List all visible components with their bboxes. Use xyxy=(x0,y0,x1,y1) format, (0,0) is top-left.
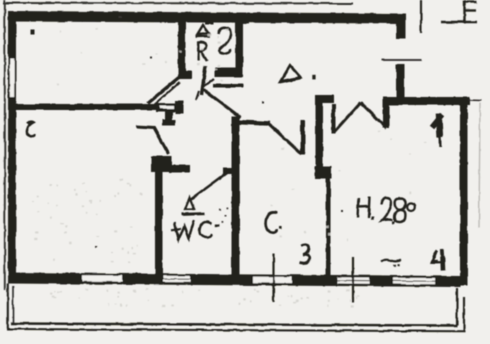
underline triangle R xyxy=(196,35,211,38)
room R right wall xyxy=(236,19,244,77)
label WC xyxy=(172,221,213,240)
kitchen V door diagonal xyxy=(269,124,302,154)
dot after hall triangle xyxy=(312,75,315,80)
door diagonal inner stroke xyxy=(153,82,180,106)
dot after WC xyxy=(215,224,220,227)
staircase symbol E top-right xyxy=(441,0,477,24)
scan noise speckles xyxy=(32,28,427,307)
dots below dash xyxy=(393,265,396,267)
speckles near WC xyxy=(219,207,228,223)
vent triangle hall xyxy=(281,66,301,82)
sheet border top xyxy=(3,2,353,5)
door zigzag up stroke xyxy=(335,103,361,132)
sheet border left xyxy=(4,0,6,290)
entrance side wall xyxy=(396,64,405,100)
living top wall left jamb xyxy=(383,99,390,128)
door stop T below wall end xyxy=(165,111,173,121)
arrow flare 1 xyxy=(196,91,199,100)
bottom outer wall xyxy=(8,273,460,288)
hall triangle base stroke xyxy=(280,78,302,82)
window slot bottom 4 xyxy=(337,277,369,284)
window slot bottom 2 xyxy=(163,276,190,282)
balcony left inner edge xyxy=(12,286,14,323)
squiggle dash before bottom 4 xyxy=(381,260,402,262)
window slot bottom 1 xyxy=(82,275,122,281)
kitchen V door jamb xyxy=(301,120,306,155)
window in left wall xyxy=(10,59,14,97)
kitchen living divider wall xyxy=(326,178,331,276)
dot after kitchen C xyxy=(279,226,282,229)
ink blobs under top wall xyxy=(96,20,358,25)
WC door jamb stub xyxy=(223,168,237,175)
label 4 living room xyxy=(432,114,443,147)
top outer wall xyxy=(8,11,406,24)
window slot bottom 3 xyxy=(253,277,292,284)
label 2 room R xyxy=(219,28,231,54)
thin line right of corner xyxy=(468,99,481,102)
label R xyxy=(198,42,207,61)
center wall bottom block xyxy=(315,166,332,179)
label H.280 xyxy=(358,197,415,224)
balcony bottom line A xyxy=(11,324,457,326)
wall end cap xyxy=(175,101,184,114)
faint outer streak right of wall xyxy=(479,103,480,228)
WC underline xyxy=(182,212,205,216)
dark micro speckles xyxy=(95,17,343,248)
door zigzag down stroke xyxy=(361,103,388,129)
label 3 kitchen xyxy=(300,245,310,263)
center hall wall thick xyxy=(316,95,324,168)
window midline slot 4 xyxy=(337,279,369,281)
door swing diagonal left room xyxy=(148,78,180,104)
WC vent triangle xyxy=(185,198,194,209)
window midline slot 2 xyxy=(163,278,190,280)
room R bottom-right wall bar xyxy=(215,68,243,78)
balcony left outer edge xyxy=(7,283,9,330)
WC triangle tail dot xyxy=(192,207,195,210)
label C kitchen xyxy=(266,212,277,233)
door arrow spur xyxy=(202,79,214,88)
living room top wall xyxy=(383,97,470,105)
WC door pointer diagonal xyxy=(190,172,229,201)
hall zigzag wall xyxy=(136,127,169,155)
door jamb box at wall end xyxy=(156,103,183,112)
tick mark 1 bottom wall xyxy=(272,254,274,302)
entrance stub wall xyxy=(396,19,406,39)
WC corner block xyxy=(151,156,172,172)
kitchen V door horizontal xyxy=(234,122,270,124)
entrance door line xyxy=(381,59,422,61)
WC top wall bar xyxy=(168,165,190,173)
label 4 bottom right xyxy=(432,250,445,271)
kitchen door jamb right xyxy=(332,104,336,134)
interior wall left room divider xyxy=(15,104,158,110)
dot mark top-left room xyxy=(31,30,35,35)
tick line top entrance xyxy=(420,0,422,33)
vent triangle room R xyxy=(198,25,210,34)
door leaf room R xyxy=(202,66,206,95)
balcony right inner edge xyxy=(456,288,458,325)
window slot bottom 5 xyxy=(393,278,435,285)
center wall top arm xyxy=(316,95,335,103)
label C left room xyxy=(27,122,35,137)
WC left wall xyxy=(155,172,163,276)
tick mark 2 bottom wall xyxy=(352,257,354,303)
kitchen left wall xyxy=(232,116,240,278)
balcony bottom line B xyxy=(7,329,466,331)
right outer wall xyxy=(460,97,468,286)
room R left wall xyxy=(178,19,186,75)
thin line below R bar xyxy=(213,84,243,88)
left outer wall xyxy=(8,12,16,283)
window midline slot 5 xyxy=(393,280,435,282)
door swing room R xyxy=(202,89,241,118)
balcony right outer edge xyxy=(463,297,465,331)
room R left wall foot xyxy=(178,71,192,80)
